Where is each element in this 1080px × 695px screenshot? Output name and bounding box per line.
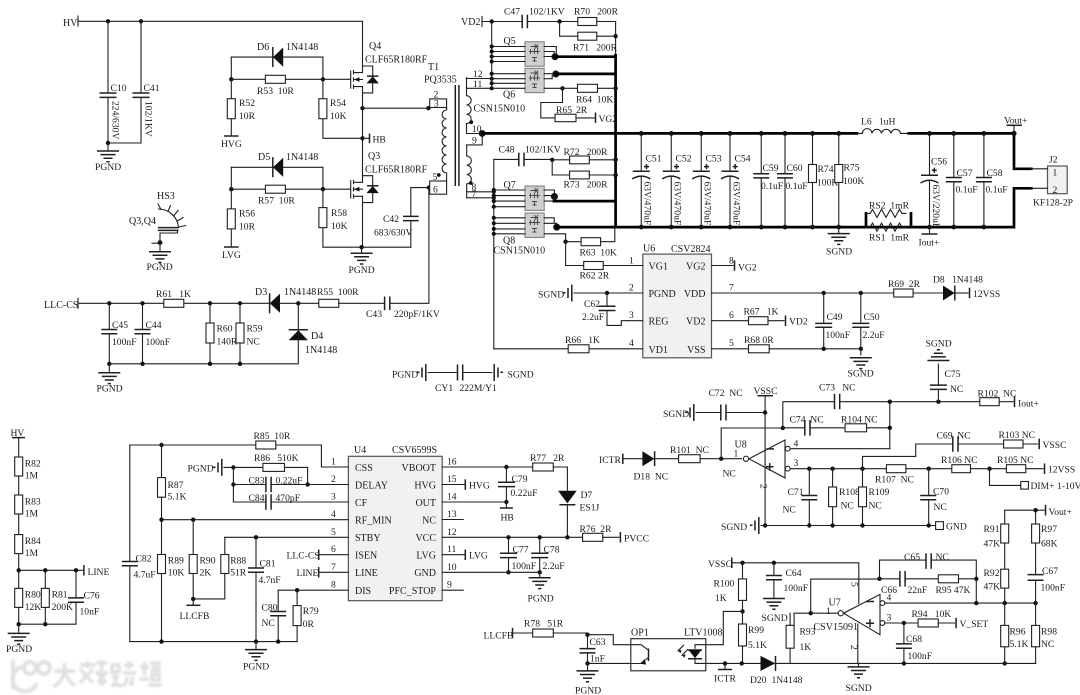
resistor R99 5.1K [742,611,744,624]
svg-text:2: 2 [629,283,634,294]
wire rectifier right stub [615,22,617,57]
svg-text:C81: C81 [260,559,276,570]
svg-text:REG: REG [649,317,669,328]
svg-text:PGND: PGND [575,686,601,695]
diode D4 1N4148 [109,303,298,364]
node C48 right [550,158,554,162]
svg-text:R66 1K: R66 1K [565,335,600,346]
svg-text:1M: 1M [25,548,39,559]
svg-text:R105 NC: R105 NC [997,455,1034,466]
svg-text:100nF: 100nF [908,651,933,662]
svg-text:VD1: VD1 [649,345,668,356]
svg-text:100nF: 100nF [112,337,137,348]
svg-text:CSS: CSS [355,463,373,474]
upper synchronous rectifier section [461,7,619,228]
resistor R75 100K [838,133,840,227]
svg-text:102/1KV: 102/1KV [529,7,565,18]
capacitor C56 63V/220uF [929,133,931,227]
resistor R60 140R [209,303,211,364]
svg-text:200K: 200K [52,602,73,613]
svg-text:1: 1 [734,449,739,460]
svg-text:NC: NC [1041,639,1054,650]
svg-text:HB: HB [501,513,514,524]
svg-text:10K: 10K [331,221,348,232]
capacitor C81 4.7nF [255,537,257,641]
svg-text:C64: C64 [786,568,802,579]
port Iout+ (sense) [1014,397,1016,408]
capacitor C80 NC [277,590,279,641]
svg-text:R64 10K: R64 10K [576,95,613,106]
svg-text:LLCFB: LLCFB [180,611,210,622]
svg-text:SGND: SGND [926,339,952,350]
svg-text:R83: R83 [25,497,41,508]
svg-text:C82: C82 [136,554,152,565]
resistor R85 10R [130,444,256,446]
svg-text:100K: 100K [843,176,864,187]
svg-text:3: 3 [331,492,336,503]
svg-text:SGND: SGND [826,247,852,258]
svg-text:C49: C49 [827,312,843,323]
svg-text:1N4148: 1N4148 [286,42,318,53]
svg-text:T1: T1 [428,62,439,73]
svg-text:3: 3 [794,458,799,469]
transformer T1 PQ3535 [424,62,493,200]
svg-text:NC: NC [869,501,882,512]
port LVG [224,246,239,248]
resistor R86 510K [263,463,285,471]
svg-text:R74: R74 [818,164,834,175]
wire R72 R73 left stub [552,160,569,175]
svg-text:PGND: PGND [6,644,32,655]
svg-text:2: 2 [331,474,336,485]
wire HV rail [78,20,363,22]
svg-text:7: 7 [331,562,336,573]
svg-text:PGND: PGND [97,384,123,395]
current monitor amp U8 section [599,339,1080,535]
svg-text:5.1K: 5.1K [1010,639,1029,650]
resistor R68 0R [749,345,770,353]
port Iout+ [927,225,932,230]
svg-text:HVG: HVG [221,139,242,150]
wire DIS row [278,589,348,591]
svg-text:7: 7 [729,283,734,294]
svg-text:LINE: LINE [297,568,319,579]
svg-text:R85 10R: R85 10R [254,431,291,442]
svg-text:5.1K: 5.1K [748,640,767,651]
svg-text:CSV2824: CSV2824 [671,244,710,255]
svg-text:LTV1008: LTV1008 [684,628,723,639]
svg-text:SGND: SGND [721,522,747,533]
pin 3 U7 [880,621,885,626]
ground SGND (U7) [858,663,860,667]
svg-text:10R: 10R [239,111,256,122]
svg-text:R53 10R: R53 10R [257,86,294,97]
svg-text:R102 NC: R102 NC [978,389,1017,400]
wire half-bridge vertical [362,108,364,182]
wire Q5 row1 [492,47,557,62]
resistor R81 200K [44,570,46,588]
svg-text:DIM+ 1-10V: DIM+ 1-10V [1031,481,1080,492]
resistor R79 0R [296,590,298,605]
resistor R104 NC [845,424,867,432]
svg-text:VCC: VCC [415,533,436,544]
svg-text:0.1uF: 0.1uF [986,185,1008,196]
svg-text:V_SET: V_SET [960,619,989,630]
svg-text:R98: R98 [1041,627,1057,638]
svg-text:R75: R75 [844,163,860,174]
svg-text:C76: C76 [84,591,100,602]
svg-text:PGND: PGND [528,594,554,605]
svg-text:C67: C67 [1042,566,1058,577]
resistor R95 47K [938,575,958,583]
svg-text:C77: C77 [513,545,529,556]
svg-text:47K: 47K [984,539,1001,550]
svg-text:100nF: 100nF [784,583,809,594]
wire U7 feedback [811,579,880,613]
svg-text:PGND: PGND [188,464,214,475]
svg-text:HB: HB [373,135,386,146]
svg-text:R91: R91 [984,524,1000,535]
svg-text:3: 3 [434,98,439,109]
svg-text:4: 4 [794,439,799,450]
resistor R103 NC [1004,440,1023,448]
node C42 top / T1 pin6 [427,185,431,189]
svg-text:VD2: VD2 [789,317,808,328]
svg-text:RS1 1mR: RS1 1mR [869,233,910,244]
svg-text:U6: U6 [643,244,655,255]
svg-text:100nF: 100nF [826,330,851,341]
svg-text:16: 16 [447,457,457,468]
wire U4 ground rail [130,641,297,643]
resistor R76 2R [583,533,603,541]
svg-text:PGND: PGND [649,289,676,300]
svg-text:R54: R54 [330,98,346,109]
svg-text:6: 6 [729,310,734,321]
port HB [369,134,371,144]
resistor R92 47K [1004,543,1006,603]
wire Vout to J2 pin1 (thick) [1014,133,1031,168]
resistor R80 12K [18,570,20,588]
ground SGND (C64) [763,599,785,610]
svg-text:1: 1 [826,606,831,617]
svg-text:R77 2R: R77 2R [530,453,565,464]
svg-text:PGND: PGND [147,262,173,273]
svg-text:Q5: Q5 [504,36,516,47]
svg-text:222M/Y1: 222M/Y1 [460,383,498,394]
transistor Q8 CSN15N010 [525,213,544,237]
port VG2 (rect) [576,117,595,119]
resistor R90 2K [192,520,194,555]
svg-text:D20: D20 [750,675,767,686]
wire VBOOT row [442,466,533,468]
svg-text:NC: NC [950,384,963,395]
node heatsink gnd [158,240,163,245]
svg-text:5: 5 [849,582,860,587]
capacitor C51 63V/470uF [640,133,642,227]
ground PGND (input caps) [107,143,109,151]
ground PGND (U4 right) [539,572,541,578]
svg-text:C58: C58 [987,168,1003,179]
resistor R98 NC [1033,601,1037,605]
svg-text:R71 200R: R71 200R [573,43,618,54]
capacitor C69 NC [863,444,953,469]
port PVCC [619,532,621,543]
pin box 5/6 [430,181,447,194]
resistor R67 1K [749,317,769,325]
resistor R83 1M [15,495,23,514]
node C45 top [107,301,111,305]
svg-text:R88: R88 [230,556,246,567]
svg-text:VG2: VG2 [599,114,618,125]
svg-text:LINE: LINE [355,568,378,579]
svg-text:HV: HV [63,18,78,29]
svg-text:C56: C56 [931,157,947,168]
svg-text:CLF65R180RF: CLF65R180RF [365,165,428,176]
pin 11 LVG [442,554,464,556]
svg-text:HVG: HVG [469,481,490,492]
port HVG [224,135,239,137]
svg-text:R78 51R: R78 51R [524,619,564,630]
resistor R74 100K [812,133,814,227]
ground PGND (divider) [18,624,20,633]
svg-text:ICTR: ICTR [599,455,621,466]
resistor R108 NC [830,467,834,471]
capacitor C79 0.22uF [505,467,507,502]
capacitor C67 100nF [1028,575,1044,581]
capacitor C66 22nF [880,578,939,580]
svg-text:63V/470uF: 63V/470uF [642,182,653,226]
port VD2 (U6) [785,316,787,327]
resistor R63 10K [563,240,567,244]
wire Q4 source to T1 pin3 [363,107,429,109]
svg-text:LVG: LVG [222,250,241,261]
svg-text:VSS: VSS [687,345,705,356]
capacitor C68 100nF [903,623,905,663]
svg-text:R60: R60 [217,324,233,335]
svg-text:R89: R89 [168,556,184,567]
svg-text:C48: C48 [499,145,515,156]
svg-text:PGND: PGND [349,265,375,276]
wire GND row [442,571,540,573]
output filter section [482,116,1073,258]
op-amp U7 CSV15091 [857,624,859,663]
svg-text:SGND: SGND [762,613,788,624]
svg-text:C63: C63 [590,637,606,648]
svg-text:R52: R52 [239,98,255,109]
svg-text:2.2uF: 2.2uF [863,330,885,341]
svg-text:3: 3 [629,310,634,321]
port LINE [83,565,85,576]
resistor R64 10K [560,86,564,90]
resistor R89 10K [161,520,163,555]
svg-text:R82: R82 [25,459,41,470]
node HB [360,136,364,140]
svg-text:2.2uF: 2.2uF [543,561,565,572]
port ICTR (opto) [724,663,726,669]
svg-text:C60: C60 [787,163,803,174]
svg-text:R68 0R: R68 0R [744,335,774,346]
resistor R105 NC [987,467,991,471]
resistor R69 2R [894,289,913,297]
svg-text:C53: C53 [706,154,722,165]
controller U4 CSV6599S [122,431,463,673]
resistor R88 51R [224,537,226,554]
svg-text:100nF: 100nF [1041,583,1066,594]
svg-text:R103 NC: R103 NC [999,430,1036,441]
svg-text:10: 10 [447,562,457,573]
node R53 right [321,77,325,81]
lower synchronous rectifier section [492,145,643,349]
svg-text:2K: 2K [200,568,212,579]
svg-text:R61 1K: R61 1K [156,289,191,300]
svg-text:R62 2R: R62 2R [580,271,610,282]
svg-text:63V/470uF: 63V/470uF [672,182,683,226]
resistor R52 10R [230,79,232,135]
resistor R73 200R [570,171,590,179]
HV input section [63,16,363,173]
resistor R59 NC [239,303,241,364]
core T1 [455,85,459,186]
svg-text:J2: J2 [1049,155,1058,166]
svg-text:SGND: SGND [538,290,564,301]
svg-text:1N4148: 1N4148 [305,345,337,356]
port DIM+ 1-10V [990,469,1021,486]
svg-text:CSN15N010: CSN15N010 [494,246,546,257]
capacitor C78 2.2uF [539,537,541,572]
svg-text:NC: NC [247,337,260,348]
node C41 top [139,19,143,23]
svg-text:C71: C71 [788,487,804,498]
resistor R58 10K [323,189,362,247]
wire Q7 output bus (thick) [553,197,555,202]
svg-text:C66: C66 [881,585,897,596]
resistor R82 1M [15,457,23,476]
capacitor C53 63V/470uF [700,133,702,227]
svg-text:SGND: SGND [508,370,534,381]
resistor R107 NC [886,465,906,473]
svg-text:NC: NC [934,502,947,513]
svg-text:GND: GND [946,522,967,533]
svg-text:C75: C75 [945,369,961,380]
node Q5 output [552,53,559,60]
svg-text:1K: 1K [715,593,727,604]
svg-text:D4: D4 [311,331,323,342]
svg-text:R99: R99 [748,625,764,636]
svg-text:VG2: VG2 [738,263,757,274]
svg-text:10K: 10K [330,111,347,122]
svg-text:VG2: VG2 [686,262,705,273]
svg-text:SGND: SGND [663,409,689,420]
node Q4 source [360,106,364,110]
svg-text:SGND: SGND [846,683,872,694]
Y capacitor CY1 222M/Y1 [392,364,534,394]
node T1 pin3 [426,106,430,110]
svg-text:R55 100R: R55 100R [317,287,359,298]
svg-text:7: 7 [472,189,477,200]
wire PGND rail lower [362,246,411,248]
capacitor C84 470pF [233,501,348,503]
svg-text:R97: R97 [1041,524,1057,535]
svg-text:Q7: Q7 [504,180,516,191]
wire D6 right vertical [322,57,324,79]
svg-text:R59: R59 [247,324,263,335]
node R59 top [238,301,242,305]
svg-text:C70: C70 [933,487,949,498]
svg-text:R106 NC: R106 NC [941,455,978,466]
svg-text:CF: CF [355,498,368,509]
svg-text:NC: NC [422,515,436,526]
svg-text:C47: C47 [504,7,520,18]
svg-text:C59: C59 [763,163,779,174]
svg-text:12K: 12K [25,602,42,613]
wire output positive rail (thick) [482,132,857,135]
svg-text:D7: D7 [581,490,593,501]
lower gate drive section [222,151,431,276]
node C44 bottom [140,362,144,366]
svg-text:5: 5 [729,338,734,349]
svg-text:R76 2R: R76 2R [580,524,613,535]
ground PGND (U4) [255,642,257,650]
capacitor C83 0.22uF [233,467,307,502]
svg-text:VBOOT: VBOOT [402,463,436,474]
resistor R109 NC [860,467,864,471]
node VDD C50 [859,291,863,295]
wire D5 left vertical [230,167,232,189]
svg-text:220pF/1KV: 220pF/1KV [394,309,440,320]
svg-text:LLC-CS: LLC-CS [44,300,78,311]
svg-text:1N4148: 1N4148 [286,152,318,163]
svg-text:R79: R79 [303,606,319,617]
ground PGND (llc row) [108,364,110,373]
svg-text:R63 10K: R63 10K [580,248,617,259]
svg-text:LINE: LINE [88,567,110,578]
svg-text:51R: 51R [230,568,247,579]
wire VD2 sense bus [491,22,493,89]
wire rectifier negative bus (thick) [614,55,617,227]
capacitor C52 63V/470uF [670,133,672,227]
svg-text:R94 10K: R94 10K [912,609,952,620]
resistor R93 1K [789,648,791,663]
svg-text:DIS: DIS [355,586,371,597]
capacitor C65 NC [880,560,977,579]
svg-text:5: 5 [433,172,438,183]
svg-text:6: 6 [331,544,336,555]
node T1 centre tap [479,130,486,137]
svg-text:9: 9 [447,580,452,591]
diode D18 NC [642,451,654,466]
svg-text:OP1: OP1 [631,628,649,639]
svg-text:C54: C54 [735,154,751,165]
svg-text:VG1: VG1 [649,262,668,273]
wire RF_MIN rail [162,519,349,521]
svg-text:LVG: LVG [416,551,436,562]
svg-text:102/1KV: 102/1KV [525,145,561,156]
resistor R56 10R [230,189,232,246]
svg-text:PQ3535: PQ3535 [424,75,457,86]
svg-text:2: 2 [758,484,769,489]
port V_SET [955,618,957,629]
U4 right-side network [442,453,649,642]
svg-text:5: 5 [331,527,336,538]
svg-text:D3: D3 [255,287,267,298]
svg-text:C80: C80 [262,603,278,614]
svg-text:C68: C68 [906,634,922,645]
node VDD C49 [822,291,826,295]
svg-text:Q3: Q3 [368,151,380,162]
capacitor C41 [140,21,142,93]
capacitor C54 63V/470uF [729,133,731,227]
node D4 top [296,301,300,305]
